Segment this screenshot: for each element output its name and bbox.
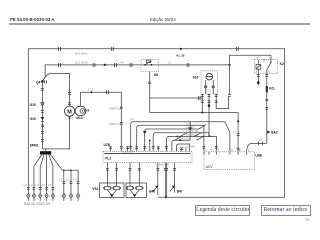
svg-text:G8: G8 bbox=[154, 73, 158, 77]
svg-text:1.0: 1.0 bbox=[29, 183, 33, 187]
svg-text:F21: F21 bbox=[269, 86, 275, 90]
wire K2 feed bbox=[230, 55, 271, 65]
svg-text:40.0 (30A): 40.0 (30A) bbox=[75, 52, 88, 56]
connector bus2 x131 bbox=[130, 63, 132, 67]
wire rail R5 bbox=[153, 133, 209, 152]
svg-text:PL2: PL2 bbox=[105, 157, 111, 161]
svg-text:1.0: 1.0 bbox=[42, 183, 46, 187]
wire A10 pin1 bbox=[201, 94, 203, 113]
svg-text:K2: K2 bbox=[280, 62, 284, 66]
thermofuse G19 bbox=[41, 103, 44, 106]
svg-text:1.0/16 GR: 1.0/16 GR bbox=[122, 150, 134, 154]
wire Q4 to M13 bbox=[42, 74, 69, 107]
svg-text:GR/RT 0.5: GR/RT 0.5 bbox=[109, 106, 122, 110]
fuse holder VS1 box2 bbox=[126, 183, 147, 197]
svg-text:0.5 SW: 0.5 SW bbox=[186, 145, 195, 149]
svg-text:VS1: VS1 bbox=[92, 187, 98, 191]
pin stubs PL2 right bbox=[181, 148, 183, 152]
svg-text:1.0: 1.0 bbox=[258, 138, 262, 142]
fuse 4 bbox=[137, 186, 142, 189]
svg-text:0.5: 0.5 bbox=[186, 122, 190, 126]
svg-text:1: 1 bbox=[248, 148, 250, 152]
fuse box A10 bbox=[201, 71, 218, 94]
svg-text:1.0: 1.0 bbox=[35, 183, 39, 187]
svg-text:PE 54.00-B-0030-03 A: PE 54.00-B-0030-03 A bbox=[10, 17, 55, 22]
node KL.30 bbox=[180, 48, 182, 50]
wire rail R8 bbox=[176, 144, 189, 151]
wire crossover diagonals bbox=[175, 137, 182, 141]
svg-text:G19: G19 bbox=[30, 103, 36, 107]
connector on bus2 x59.5 bbox=[59, 63, 61, 67]
ground point B46 bbox=[153, 186, 157, 191]
connector on bus1 x112 bbox=[111, 47, 113, 51]
svg-text:1.0: 1.0 bbox=[59, 177, 63, 181]
connector bus2 x188 bbox=[187, 63, 189, 67]
svg-text:UCV: UCV bbox=[206, 165, 214, 169]
node bus2 x104.8 bbox=[104, 64, 106, 66]
control unit UCV bbox=[204, 152, 255, 170]
bottom connectors left bbox=[27, 182, 80, 190]
thermofuse G19b bbox=[41, 117, 44, 120]
ground point B47 bbox=[170, 186, 174, 191]
svg-text:4.0: 4.0 bbox=[120, 60, 124, 64]
wire bus2 bbox=[45, 65, 230, 78]
svg-text:0.5 RT: 0.5 RT bbox=[186, 125, 194, 129]
gauge A10 bbox=[206, 73, 213, 80]
wire box drop right bbox=[229, 65, 231, 94]
svg-text:B54.00-0349-09: B54.00-0349-09 bbox=[24, 202, 50, 206]
fuse holder VS1 box1 bbox=[99, 183, 124, 197]
svg-text:6: 6 bbox=[257, 56, 259, 60]
connector marks wire x121 bbox=[120, 107, 123, 109]
connector Q4 bbox=[42, 77, 45, 81]
button retornar bbox=[261, 205, 311, 216]
wire bus1 KL.30 top bbox=[28, 49, 284, 198]
relay K2 bbox=[255, 60, 278, 73]
svg-text:9: 9 bbox=[231, 148, 233, 152]
junction box PL2 bbox=[103, 151, 192, 162]
fuse 2 bbox=[114, 186, 119, 189]
wire rail R2 bbox=[131, 122, 230, 152]
svg-text:M: M bbox=[67, 109, 72, 115]
wire G19 chain bbox=[41, 83, 43, 149]
wire motor return bbox=[42, 116, 69, 148]
wire to UCV bbox=[247, 143, 267, 151]
svg-text:0.5/16 SW: 0.5/16 SW bbox=[186, 129, 199, 133]
svg-text:16.0 (30A): 16.0 (30A) bbox=[75, 61, 88, 65]
fuse 1 bbox=[105, 186, 110, 189]
wire rail R0 bbox=[150, 97, 202, 99]
node bus2 end bbox=[229, 64, 231, 66]
button legenda bbox=[195, 205, 250, 216]
pin stubs PL2 top bbox=[110, 146, 112, 151]
svg-text:KL.30: KL.30 bbox=[177, 53, 185, 57]
wire G8 drop bbox=[149, 72, 151, 113]
svg-text:1.0: 1.0 bbox=[73, 177, 77, 181]
svg-text:1.0: 1.0 bbox=[168, 60, 172, 64]
svg-text:M13: M13 bbox=[76, 116, 82, 120]
arrow on R2 drop bbox=[189, 122, 191, 140]
wire rail R1 bbox=[150, 113, 238, 152]
wire rail R4 bbox=[145, 129, 199, 151]
svg-text:0.5 GR: 0.5 GR bbox=[182, 136, 191, 140]
ground wire pair to bottom bus bbox=[165, 196, 167, 198]
svg-text:1.0: 1.0 bbox=[48, 183, 52, 187]
terminal BA2 bbox=[267, 130, 270, 133]
svg-text:Q4: Q4 bbox=[36, 80, 40, 84]
switch G8 box bbox=[141, 60, 159, 72]
page number bbox=[305, 217, 309, 222]
wire rail R7 bbox=[172, 140, 190, 151]
wire K2 pin to arrow bbox=[257, 73, 259, 80]
node x149.8 bbox=[149, 140, 151, 142]
fuse 3 bbox=[127, 186, 132, 189]
svg-text:1.0: 1.0 bbox=[66, 177, 70, 181]
motor M13 bbox=[65, 106, 75, 116]
wire rail R3 bbox=[137, 125, 204, 151]
svg-text:7: 7 bbox=[218, 148, 220, 152]
wire A10 pin3 loop bbox=[216, 94, 228, 109]
svg-text:1.0: 1.0 bbox=[130, 117, 134, 121]
svg-text:U3B: U3B bbox=[255, 153, 262, 157]
svg-text:B46: B46 bbox=[149, 190, 155, 194]
wire A10 pin2 bbox=[208, 94, 210, 113]
connector on bus1 x237 bbox=[236, 47, 238, 51]
PL2 bottom pins to fuses bbox=[106, 163, 108, 187]
svg-text:SPM1: SPM1 bbox=[30, 143, 39, 147]
fuse F21 bbox=[266, 73, 268, 143]
svg-text:GR/RT 0.5: GR/RT 0.5 bbox=[109, 122, 122, 126]
svg-text:A10: A10 bbox=[193, 75, 199, 79]
svg-text:G19: G19 bbox=[30, 117, 36, 121]
svg-text:B47: B47 bbox=[177, 190, 183, 194]
svg-text:10.0: 10.0 bbox=[88, 87, 94, 91]
svg-text:0.75: 0.75 bbox=[206, 88, 212, 92]
svg-text:BA2: BA2 bbox=[271, 131, 278, 135]
svg-text:Edição 05/03: Edição 05/03 bbox=[150, 17, 176, 22]
svg-text:1.0: 1.0 bbox=[23, 183, 27, 187]
svg-text:1.0: 1.0 bbox=[233, 129, 237, 133]
fan wires SPM1 bbox=[34, 155, 42, 194]
wire rail R6 bbox=[167, 137, 217, 152]
connector bus2 x94 bbox=[93, 63, 95, 67]
svg-text:3: 3 bbox=[205, 148, 207, 152]
svg-text:5: 5 bbox=[210, 148, 212, 152]
connector on bus1 x59.5 bbox=[59, 47, 61, 51]
connector bus2 x115.4 bbox=[115, 63, 117, 67]
header rule bbox=[9, 23, 310, 25]
svg-text:2: 2 bbox=[239, 148, 241, 152]
svg-text:4: 4 bbox=[256, 70, 258, 74]
pump symbol bbox=[75, 106, 86, 115]
wire pump feed bbox=[81, 92, 122, 151]
